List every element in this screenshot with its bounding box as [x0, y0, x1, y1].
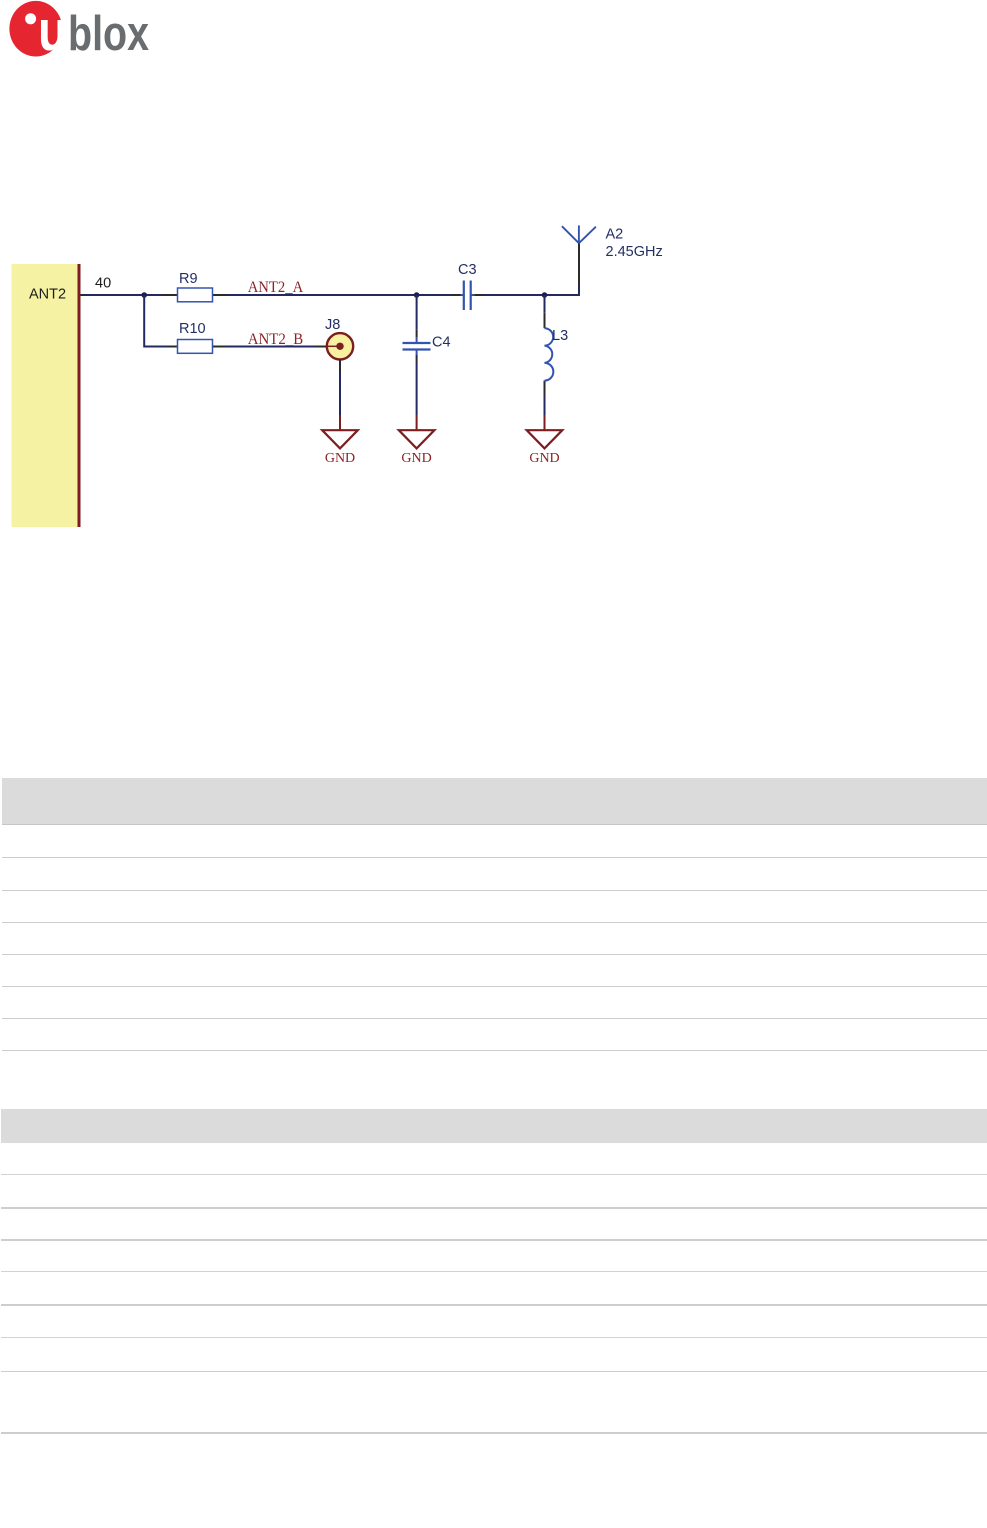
svg-text:u: u	[38, 0, 68, 63]
resistor R10	[178, 340, 213, 354]
node junction 1	[141, 292, 147, 298]
inductor L3	[545, 328, 554, 380]
wire antenna riser	[578, 243, 580, 296]
table 2 row lines	[1, 1174, 987, 1175]
svg-text:ANT2: ANT2	[29, 287, 66, 303]
svg-text:GND: GND	[401, 451, 431, 466]
table 1 row lines	[2, 857, 987, 858]
module ANT2 block	[12, 264, 81, 527]
table 1 header bar	[2, 778, 987, 824]
ground symbol under C4	[399, 430, 435, 466]
svg-text:C3: C3	[458, 262, 477, 278]
table 2 header bar	[1, 1109, 987, 1143]
wire L3 branch	[544, 295, 546, 430]
svg-text:J8: J8	[325, 317, 340, 333]
wire J8 to ground	[339, 360, 341, 431]
ground symbol under J8	[322, 430, 358, 466]
capacitor C4	[403, 343, 431, 350]
svg-text:40: 40	[95, 276, 111, 292]
svg-text:GND: GND	[529, 451, 559, 466]
svg-text:L3: L3	[552, 328, 568, 344]
wire main horizontal ANT2_A	[81, 294, 580, 296]
wire branch to R10	[144, 295, 327, 347]
svg-text:ANT2_A: ANT2_A	[248, 279, 304, 296]
svg-text:GND: GND	[325, 451, 355, 466]
u-blox logo	[9, 0, 149, 63]
node junction 2 (C4 tap)	[414, 292, 420, 298]
svg-text:2.45GHz: 2.45GHz	[606, 244, 663, 260]
connector J8	[327, 333, 353, 359]
wire C4 branch	[416, 295, 418, 430]
ground symbol under L3	[527, 430, 563, 466]
svg-text:C4: C4	[432, 335, 451, 351]
resistor R9	[178, 288, 213, 302]
antenna A2	[562, 225, 596, 243]
svg-text:R10: R10	[179, 321, 206, 337]
capacitor C3	[461, 281, 475, 311]
svg-text:A2: A2	[606, 227, 624, 243]
svg-text:blox: blox	[68, 7, 149, 61]
svg-text:ANT2_B: ANT2_B	[248, 331, 304, 348]
svg-text:R9: R9	[179, 271, 198, 287]
node junction 3 (L3 tap)	[542, 292, 548, 298]
